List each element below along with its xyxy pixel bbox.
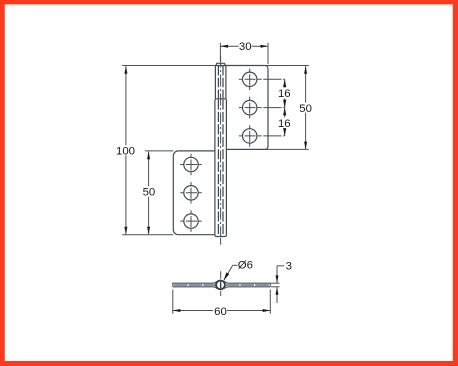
hole A3 (top plate, lower) (243, 129, 257, 143)
upper knuckle (pin housing of flag plate) (215, 66, 226, 99)
svg-text:16: 16 (278, 118, 291, 130)
svg-text:100: 100 (116, 145, 135, 157)
hole B1 centerlines (180, 154, 202, 176)
barrel circle (bottom view, Ø6) (216, 281, 225, 290)
svg-text:50: 50 (143, 187, 156, 199)
leader line for Ø6 (224, 265, 238, 280)
hole B3 centerlines (180, 210, 202, 232)
svg-text:3: 3 (286, 260, 292, 272)
bottom view left leaf (edge-on) (173, 281, 217, 288)
dimension 60 (bottom width) (173, 290, 270, 314)
bottom view hidden hole lines (dashed mid-plate) (174, 284, 269, 286)
hole A1 (top plate, upper) (243, 72, 257, 86)
dimension 30 (top) (220, 43, 268, 64)
pin hidden lines (dashed, inside barrel) (218, 99, 223, 236)
svg-text:50: 50 (299, 103, 312, 115)
dimension 3 (plate thickness) (271, 266, 284, 303)
svg-text:60: 60 (214, 306, 227, 318)
hole A2 centerlines (239, 97, 285, 119)
circle center line (vertical dash-dot through barrel circle) (220, 271, 222, 296)
lower plate (front view, left leaf) (173, 151, 215, 235)
pin hidden lines (dashed, inside knuckle) (218, 66, 223, 98)
svg-text:Ø6: Ø6 (238, 259, 253, 271)
lower barrel (pin housing of lower plate) (215, 99, 227, 237)
dimension 16 (upper, right of top plate) (283, 79, 286, 107)
dimension 50 (right side of top plate) (265, 66, 309, 150)
hole B2 (lower plate, middle) (184, 186, 198, 200)
hole A3 centerlines (239, 125, 285, 147)
pin center line (vertical dash-dot) (220, 56, 222, 245)
dimension 50 (left, lower plate) (145, 151, 173, 235)
svg-text:30: 30 (239, 41, 252, 53)
dimension 16 (lower, right of top plate) (283, 108, 286, 136)
bottom view right leaf (edge-on) (224, 281, 270, 288)
svg-text:16: 16 (278, 88, 291, 100)
hole B3 (lower plate, lower) (184, 214, 198, 228)
hole B2 centerlines (180, 182, 202, 204)
pin cap (top of pin) (216, 63, 225, 65)
hole B1 (lower plate, upper) (184, 157, 198, 171)
pin slot inside circle (220, 282, 222, 289)
top flag plate (front view, right leaf) (215, 66, 268, 150)
dimension 100 (left overall) (122, 66, 215, 235)
hole A2 (top plate, middle) (243, 100, 257, 114)
hole A1 centerlines (239, 69, 285, 91)
